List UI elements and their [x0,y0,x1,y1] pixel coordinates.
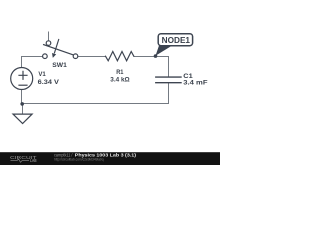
switch SW1 top throw terminal [46,41,51,46]
svg-text:3.4 mF: 3.4 mF [183,79,207,86]
node NODE1 junction dot [154,54,158,58]
wire bottom rail [22,103,168,105]
svg-text:3.4 kΩ: 3.4 kΩ [110,76,130,83]
V1 plus sign [19,71,27,79]
capacitor C1 bottom plate [156,82,181,84]
capacitor C1 top plate [156,76,181,78]
V1 minus sign [19,84,27,86]
resistor R1 zigzag [106,52,134,61]
wire capacitor bottom to rail [168,83,170,104]
svg-text:6.34 V: 6.34 V [38,79,60,86]
svg-text:LAB: LAB [30,158,37,163]
svg-text:R1: R1 [116,69,124,76]
wire V1 bottom to ground junction [21,90,23,104]
switch SW1 right terminal [73,54,78,59]
wire switch to resistor [78,56,106,58]
wire resistor to node1 junction [134,56,156,58]
svg-text:V1: V1 [38,71,46,78]
switch SW1 arrow head [52,53,56,58]
voltage source V1 [11,68,33,90]
wire V1 top to corner to switch [22,57,43,68]
svg-text:NODE1: NODE1 [162,36,191,45]
switch SW1 actuator arrow line [55,40,59,53]
switch SW1 blade [44,45,73,55]
wire ground stub [22,104,24,114]
switch SW1 left pole terminal [43,54,48,59]
CircuitLab logo in footer [10,155,37,163]
svg-text:http://circuitlab.com/c2e9kt34: http://circuitlab.com/c2e9kt349la9q [54,157,104,162]
footer black bar [0,152,220,165]
svg-text:SW1: SW1 [52,62,67,69]
wire junction to capacitor corner [156,57,169,77]
NODE1 flag pointer tail [156,45,174,56]
ground node junction dot [20,102,24,106]
ground symbol [13,114,32,123]
wire switch top throw stub [48,32,50,41]
NODE1 flag box [158,34,192,46]
